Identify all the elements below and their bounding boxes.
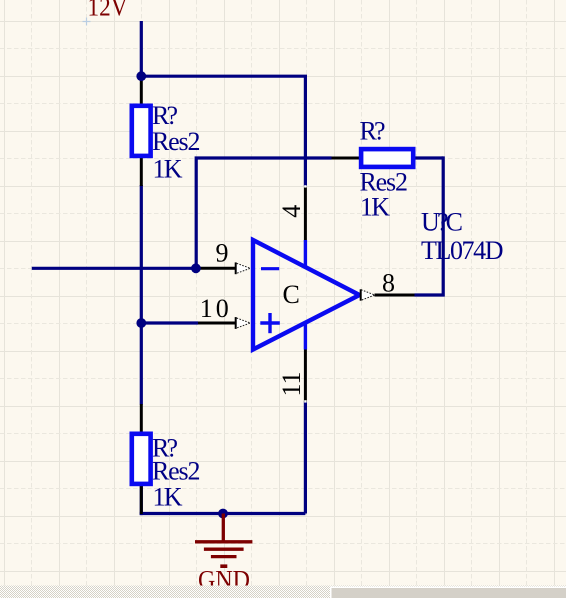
svg-text:9: 9 bbox=[216, 239, 229, 268]
svg-text:1K: 1K bbox=[153, 155, 183, 184]
svg-text:TL074D: TL074D bbox=[421, 236, 504, 265]
svg-text:Res2: Res2 bbox=[152, 457, 201, 486]
svg-text:1K: 1K bbox=[153, 483, 183, 512]
svg-text:R?: R? bbox=[152, 101, 178, 130]
svg-text:1K: 1K bbox=[360, 192, 390, 221]
svg-text:U?C: U?C bbox=[421, 207, 463, 236]
svg-text:11: 11 bbox=[277, 371, 306, 396]
svg-text:C: C bbox=[283, 280, 300, 309]
svg-text:12V: 12V bbox=[88, 0, 128, 22]
svg-text:4: 4 bbox=[277, 205, 306, 218]
svg-text:R?: R? bbox=[360, 117, 386, 146]
svg-text:Res2: Res2 bbox=[152, 127, 201, 156]
svg-text:8: 8 bbox=[382, 269, 395, 298]
